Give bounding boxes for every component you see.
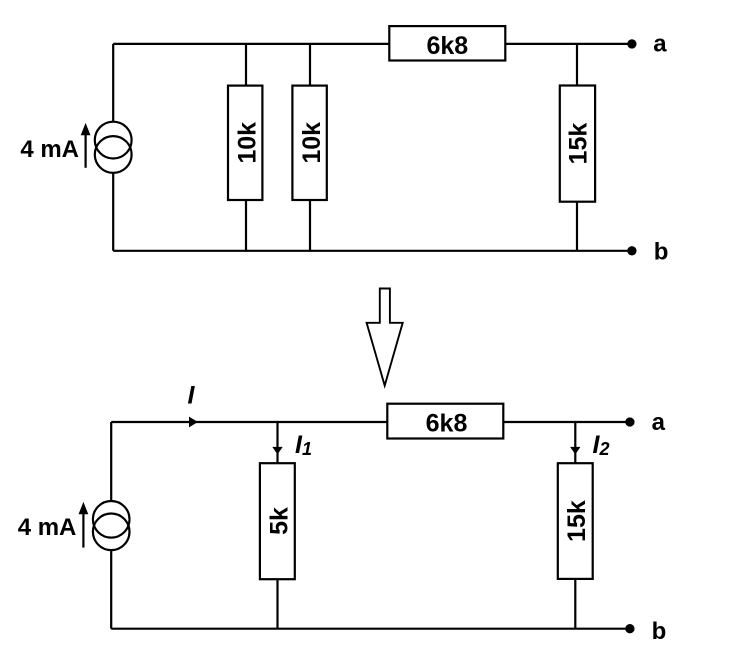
- svg-text:6k8: 6k8: [426, 32, 468, 60]
- svg-text:4 mA: 4 mA: [18, 514, 77, 541]
- svg-text:10k: 10k: [298, 122, 326, 164]
- svg-text:a: a: [653, 31, 667, 58]
- svg-text:15k: 15k: [563, 500, 591, 542]
- svg-text:10k: 10k: [234, 122, 262, 164]
- svg-text:15k: 15k: [565, 123, 593, 165]
- svg-text:I: I: [188, 381, 196, 409]
- svg-text:b: b: [654, 239, 669, 266]
- svg-text:a: a: [652, 409, 666, 436]
- svg-text:b: b: [652, 618, 667, 645]
- svg-text:6k8: 6k8: [426, 410, 468, 438]
- svg-text:4 mA: 4 mA: [20, 136, 79, 163]
- svg-text:5k: 5k: [266, 507, 294, 535]
